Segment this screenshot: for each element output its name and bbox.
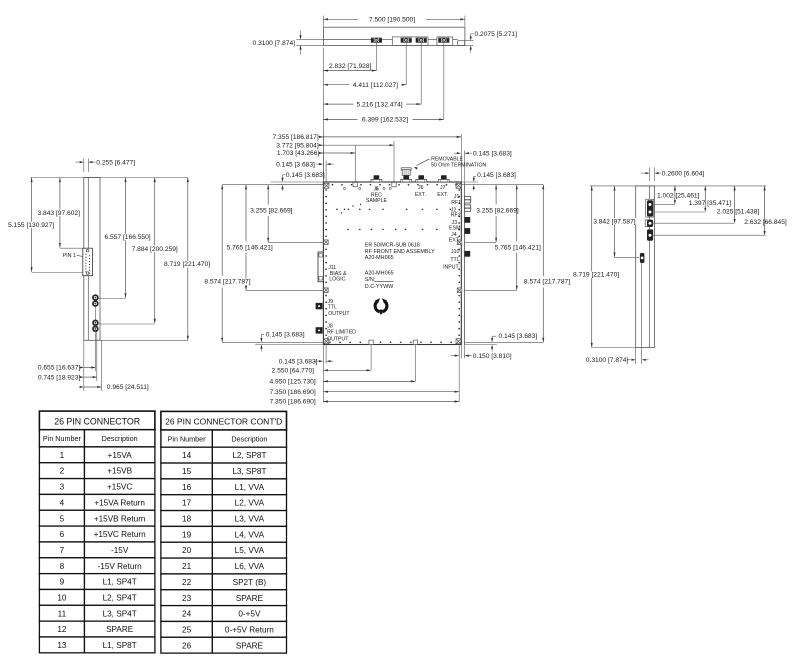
dimension 0.145 [3.683] top-left vertical: [271, 181, 324, 183]
table row pin 9: [39, 574, 154, 590]
svg-text:PIN 1: PIN 1: [63, 253, 76, 259]
extension lines below main box: [322, 345, 324, 403]
connector J9 side profile (left view): [93, 295, 98, 300]
svg-text:SP2T (B): SP2T (B): [233, 578, 267, 587]
svg-text:-15V: -15V: [111, 546, 129, 555]
svg-text:0.255 [6.477]: 0.255 [6.477]: [96, 159, 135, 166]
table 26 PIN CONNECTOR CONT'D header row: [161, 430, 287, 447]
inner hole row A: [336, 209, 338, 211]
svg-text:RF2: RF2: [451, 213, 461, 219]
left view bottom extension lines: [83, 340, 85, 391]
top side view plate line: [323, 38, 371, 40]
svg-text:7.500 [190.500]: 7.500 [190.500]: [369, 16, 415, 23]
svg-text:J10: J10: [451, 249, 459, 255]
svg-text:OUTPUT: OUTPUT: [328, 311, 350, 317]
svg-text:L1, SP4T: L1, SP4T: [103, 578, 137, 587]
dimension 0.145 [3.683] top-left: [319, 163, 324, 165]
dimension 6.557 [166.550]: [125, 178, 127, 298]
dimension 1.397 [35.471]: [704, 186, 706, 209]
dimension 1.703 [43.266]: [320, 152, 356, 154]
right view bottom extension line: [592, 347, 636, 349]
svg-text:2.632 [66.845]: 2.632 [66.845]: [744, 219, 787, 226]
table row pin 1: [39, 447, 154, 463]
edge screw right upper: [457, 240, 462, 245]
dimension 8.574 [217.787] left: [221, 185, 223, 276]
svg-text:3.255 [82.669]: 3.255 [82.669]: [250, 208, 293, 215]
svg-text:6: 6: [60, 530, 65, 539]
svg-text:24: 24: [182, 610, 192, 619]
connector J7 on top edge: [438, 179, 449, 182]
svg-text:14: 14: [182, 451, 192, 460]
svg-text:7: 7: [60, 546, 65, 555]
svg-text:15: 15: [182, 467, 192, 476]
svg-text:17: 17: [182, 499, 192, 508]
top edge square hole A: [353, 182, 357, 186]
left side view bottom extension line: [100, 339, 188, 341]
svg-text:5: 5: [60, 514, 65, 523]
svg-text:4: 4: [60, 498, 65, 507]
dimension 3.255 [82.669] left: [267, 185, 269, 205]
connector J10 on right edge: [465, 251, 471, 257]
dimension 0.2600 [6.604]: [649, 168, 651, 182]
corner screw top-right: [456, 183, 461, 188]
dimension 7.355 [186.817]: [320, 136, 462, 138]
svg-text:26: 26: [182, 641, 192, 650]
dimension 7.350 [186.690] first: [323, 391, 459, 393]
svg-text:EXT.: EXT.: [437, 192, 448, 198]
table row pin 4: [39, 494, 154, 510]
table 26 PIN CONNECTOR CONT'D column divider: [211, 430, 213, 653]
right side view lid face line: [649, 186, 651, 348]
dimension 2.025 [51.438]: [734, 186, 736, 221]
top side view outline: [323, 27, 465, 45]
dimension 0.2075 [5.271] right: [465, 40, 474, 42]
table row pin 5: [39, 510, 154, 526]
dimension 8.719 [221.470] left view: [187, 178, 189, 341]
svg-text:A20-MH065: A20-MH065: [365, 255, 394, 261]
svg-text:26 PIN CONNECTOR: 26 PIN CONNECTOR: [54, 416, 140, 426]
svg-text:+15VB Return: +15VB Return: [94, 514, 146, 523]
svg-text:3.772 [95.804]: 3.772 [95.804]: [276, 142, 319, 149]
dimension 5.216 [132.474]: [323, 103, 353, 105]
dimension 0.145 [3.683] top-right vertical: [461, 181, 478, 183]
connector J9 on left edge: [316, 303, 323, 309]
extension lines right of main box: [464, 241, 496, 243]
svg-text:TTL: TTL: [328, 305, 337, 311]
dimension 0.3100 [7.874] left: [296, 38, 323, 40]
svg-text:2: 2: [60, 467, 65, 476]
dimension 2.832 [71.928]: [323, 70, 376, 72]
svg-text:Description: Description: [231, 434, 267, 443]
svg-text:50 Ohm TERMINATION: 50 Ohm TERMINATION: [431, 163, 486, 169]
svg-text:-15V Return: -15V Return: [98, 562, 143, 571]
top side view right tab: [458, 41, 465, 46]
right side view top extension line: [590, 185, 767, 187]
left extension for top dims: [322, 48, 324, 182]
table row pin 2: [39, 463, 154, 479]
table row pin 6: [39, 526, 154, 542]
svg-text:1.703 [43.266]: 1.703 [43.266]: [277, 150, 320, 157]
bottom edge hole row: [329, 341, 331, 343]
svg-text:4.411 [112.027]: 4.411 [112.027]: [353, 82, 398, 89]
svg-text:Pin Number: Pin Number: [43, 434, 82, 443]
svg-text:21: 21: [182, 562, 192, 571]
connector J3 on right edge: [465, 217, 471, 223]
connector EXT side (right view): [647, 229, 653, 240]
table row pin 17: [161, 495, 287, 511]
svg-text:0-+5V Return: 0-+5V Return: [225, 625, 274, 634]
connector J4 on right edge: [465, 228, 471, 234]
left side view top extension line: [30, 177, 188, 179]
svg-text:S/N:: S/N:: [365, 277, 375, 283]
dimension 0.655 [16.637]: [84, 367, 96, 369]
svg-text:6.399 [162.532]: 6.399 [162.532]: [362, 117, 408, 124]
dimension 0.255 [6.477]: [83, 159, 85, 173]
svg-text:3.255 [82.669]: 3.255 [82.669]: [476, 208, 519, 215]
dimension 5.155 [130.927]: [31, 178, 33, 272]
svg-text:19: 19: [182, 530, 192, 539]
left edge hole column: [325, 189, 327, 191]
ESD logo: [375, 298, 388, 315]
extension lines above main box: [325, 161, 327, 182]
svg-text:7.355 [186.817]: 7.355 [186.817]: [273, 134, 319, 141]
svg-text:25: 25: [182, 625, 192, 634]
dimension 0.150 [3.810] bottom-right: [455, 355, 460, 357]
svg-text:L2, SP8T: L2, SP8T: [232, 451, 266, 460]
svg-text:SPARE: SPARE: [236, 641, 264, 650]
dimension 5.765 [146.421] right: [516, 185, 518, 242]
dimension 6.399 [162.532]: [323, 118, 357, 120]
connector TTL input side (right view): [640, 253, 645, 263]
table row pin 26: [161, 637, 287, 653]
connector J8 on left edge: [316, 327, 323, 333]
svg-text:L3, SP4T: L3, SP4T: [103, 609, 137, 618]
svg-text:0.2075 [5.271]: 0.2075 [5.271]: [475, 31, 518, 38]
svg-text:11: 11: [58, 609, 67, 618]
top edge hole row: [332, 184, 334, 186]
svg-text:LOGIC: LOGIC: [329, 276, 345, 282]
table row pin 8: [39, 558, 154, 574]
table row pin 25: [161, 621, 287, 637]
svg-text:0.145 [3.683]: 0.145 [3.683]: [279, 358, 318, 365]
svg-text:8: 8: [60, 562, 65, 571]
main assembly outline: [323, 182, 461, 345]
svg-text:9: 9: [60, 578, 65, 587]
svg-text:8.719 [221.470]: 8.719 [221.470]: [573, 272, 619, 279]
connector J8 side profile (left view): [93, 320, 98, 325]
connector ESM side (right view): [647, 220, 653, 227]
dimension 4.950 [125.730]: [323, 380, 415, 382]
edge screw right lower: [457, 288, 462, 293]
svg-text:D.C-YYWW: D.C-YYWW: [365, 284, 394, 290]
svg-text:INPUT: INPUT: [443, 264, 459, 270]
svg-text:L5, VVA: L5, VVA: [235, 546, 265, 555]
dimension 7.884 [200.259]: [154, 178, 156, 324]
svg-text:13: 13: [57, 641, 67, 650]
svg-text:4.950 [125.730]: 4.950 [125.730]: [270, 379, 316, 386]
svg-text:26 PIN CONNECTOR CONT'D: 26 PIN CONNECTOR CONT'D: [165, 417, 282, 427]
termination connector on top edge: [401, 179, 412, 182]
svg-text:L1, SP8T: L1, SP8T: [103, 641, 137, 650]
svg-text:7.350 [186.690]: 7.350 [186.690]: [270, 389, 316, 396]
svg-text:J7: J7: [440, 185, 446, 191]
dimension 7.500 [190.500]: [322, 16, 324, 27]
table row pin 10: [39, 589, 154, 605]
svg-text:8.574 [217.787]: 8.574 [217.787]: [204, 279, 250, 286]
svg-text:5.155 [130.927]: 5.155 [130.927]: [8, 222, 54, 229]
connector RF1-RF2 stack (right view): [647, 200, 653, 216]
svg-text:0.145 [3.683]: 0.145 [3.683]: [499, 333, 538, 340]
right edge hole column: [458, 189, 460, 191]
svg-text:+15VB: +15VB: [107, 467, 132, 476]
svg-text:OUTPUT: OUTPUT: [327, 336, 349, 342]
dimension 0.965 [24.511]: [84, 386, 102, 388]
svg-text:L3, SP8T: L3, SP8T: [232, 467, 266, 476]
svg-text:18: 18: [182, 515, 192, 524]
svg-text:1.397 [35.471]: 1.397 [35.471]: [689, 200, 732, 207]
connector PIN 1 26-pin d-sub side: [83, 248, 93, 276]
svg-text:0.145 [3.683]: 0.145 [3.683]: [477, 172, 516, 179]
svg-text:8.574 [217.787]: 8.574 [217.787]: [524, 279, 570, 286]
right view bottom extension lines: [635, 348, 637, 365]
bottom edge square hole B: [413, 340, 417, 344]
connector J6 side profile: [416, 38, 426, 42]
table row pin 11: [39, 605, 154, 621]
svg-text:23: 23: [182, 594, 192, 603]
svg-text:0.150 [3.810]: 0.150 [3.810]: [473, 353, 512, 360]
corner screw top-left: [324, 183, 329, 188]
dimension 0.3100 [7.874] right view: [632, 359, 636, 361]
svg-text:RF1: RF1: [451, 200, 461, 206]
svg-text:+15VC: +15VC: [107, 483, 132, 492]
connector J1 flange on right edge: [464, 197, 470, 200]
svg-text:8.719 [221.470]: 8.719 [221.470]: [164, 261, 210, 268]
svg-text:L2, SP4T: L2, SP4T: [103, 593, 137, 602]
svg-text:SAMPLE: SAMPLE: [366, 198, 388, 204]
top side view raised block A: [392, 37, 428, 46]
top edge square hole B: [392, 182, 396, 186]
svg-text:3.843 [97.602]: 3.843 [97.602]: [38, 210, 81, 217]
table row pin 23: [161, 590, 287, 606]
dimension 0.745 [18.923]: [84, 376, 97, 378]
svg-text:+15VC Return: +15VC Return: [94, 530, 147, 539]
dimension 2.632 [66.845]: [764, 186, 766, 233]
svg-text:Pin Number: Pin Number: [168, 434, 207, 443]
table row pin 7: [39, 542, 154, 558]
svg-text:0.655 [16.637]: 0.655 [16.637]: [38, 365, 81, 372]
inner hole row B: [347, 229, 349, 231]
dimension 4.411 [112.027]: [323, 84, 349, 86]
svg-text:+15VA: +15VA: [108, 451, 133, 460]
dimension 0.145 [3.683] top-right: [457, 152, 462, 154]
svg-text:5.216 [132.474]: 5.216 [132.474]: [357, 101, 403, 108]
left side view outline: [84, 178, 100, 341]
table row pin 19: [161, 526, 287, 542]
table row pin 16: [161, 479, 287, 495]
svg-text:3: 3: [60, 483, 65, 492]
svg-text:EXT.: EXT.: [449, 238, 460, 244]
dimension 8.574 [217.787] right: [542, 185, 544, 276]
svg-text:1.002 [25.461]: 1.002 [25.461]: [657, 192, 700, 199]
table row pin 24: [161, 606, 287, 622]
leader lines from side-view connectors: [375, 43, 377, 71]
svg-text:TTL: TTL: [450, 257, 459, 263]
dimension 0.145 [3.683] bottom: [319, 360, 324, 362]
svg-text:0.965 [24.511]: 0.965 [24.511]: [107, 384, 149, 391]
table row pin 18: [161, 511, 287, 527]
svg-text:EXT.: EXT.: [415, 192, 426, 198]
svg-text:0.3100 [7.874]: 0.3100 [7.874]: [253, 40, 296, 47]
svg-text:L2, VVA: L2, VVA: [235, 499, 265, 508]
svg-text:10: 10: [57, 593, 67, 602]
connector J5 on top edge: [371, 179, 382, 182]
svg-text:0.145 [3.683]: 0.145 [3.683]: [473, 150, 512, 157]
table row pin 12: [39, 621, 154, 637]
svg-text:7.884 [200.259]: 7.884 [200.259]: [132, 246, 178, 253]
svg-text:RF LIMITED: RF LIMITED: [327, 329, 356, 335]
dimension 3.843 [97.602]: [59, 178, 61, 248]
svg-text:22: 22: [182, 578, 192, 587]
table 26 PIN CONNECTOR column divider: [83, 430, 85, 653]
svg-text:12: 12: [57, 625, 67, 634]
svg-text:2.832 [71.928]: 2.832 [71.928]: [329, 63, 372, 70]
svg-text:16: 16: [182, 483, 192, 492]
svg-text:0.2600 [6.604]: 0.2600 [6.604]: [662, 170, 705, 177]
connector J11 26-pin on left edge: [318, 252, 323, 282]
dimension 7.350 [186.690] second: [323, 401, 459, 403]
right view connector group box upper: [646, 199, 654, 217]
sparse circles under top edge: [344, 187, 346, 189]
table row pin 21: [161, 558, 287, 574]
table row pin 13: [39, 637, 154, 653]
table row pin 14: [161, 447, 287, 463]
right view connector group box lower: [645, 220, 651, 227]
svg-text:2.025 [51.438]: 2.025 [51.438]: [717, 209, 760, 216]
svg-text:A20-MH065: A20-MH065: [365, 270, 394, 276]
svg-text:6.557 [166.550]: 6.557 [166.550]: [105, 234, 151, 241]
dimension 5.765 [146.421] left: [245, 185, 247, 242]
main assembly outer right line: [463, 182, 465, 345]
dimension 3.255 [82.669] right: [495, 185, 497, 205]
svg-text:L6, VVA: L6, VVA: [235, 562, 265, 571]
edge screw left lower: [324, 288, 329, 293]
svg-text:J6: J6: [418, 185, 424, 191]
connector J5 side profile: [371, 38, 381, 42]
table row pin 20: [161, 542, 287, 558]
dimension 2.550 [64.770]: [323, 369, 371, 371]
connector J6 on top edge: [416, 179, 427, 182]
table 26 PIN CONNECTOR title: [39, 411, 154, 430]
svg-text:L3, VVA: L3, VVA: [235, 515, 265, 524]
table 26 PIN CONNECTOR header row: [39, 430, 154, 447]
svg-text:ESM: ESM: [449, 226, 460, 232]
table row pin 3: [39, 479, 154, 495]
svg-text:L1, VVA: L1, VVA: [235, 483, 265, 492]
svg-text:7.350 [186.690]: 7.350 [186.690]: [270, 399, 316, 406]
svg-text:SPARE: SPARE: [106, 625, 134, 634]
svg-text:2.550 [64.770]: 2.550 [64.770]: [272, 368, 315, 375]
extension lines left of main box: [222, 184, 323, 186]
svg-text:Description: Description: [102, 434, 138, 443]
corner screw bottom-left: [324, 339, 329, 344]
svg-text:5.765 [146.421]: 5.765 [146.421]: [227, 244, 273, 251]
dimension 3.772 [95.804]: [319, 144, 394, 146]
svg-text:0-+5V: 0-+5V: [238, 610, 261, 619]
svg-text:5.765 [146.421]: 5.765 [146.421]: [495, 244, 541, 251]
svg-text:0.145 [3.683]: 0.145 [3.683]: [266, 332, 305, 339]
svg-text:0.145 [3.683]: 0.145 [3.683]: [286, 172, 325, 179]
svg-text:20: 20: [182, 546, 192, 555]
table 26 PIN CONNECTOR CONT'D title: [161, 411, 287, 430]
svg-text:1: 1: [60, 451, 65, 460]
svg-text:3.842 [97.587]: 3.842 [97.587]: [593, 218, 636, 225]
connector J2 flange on right edge: [464, 205, 470, 208]
top side view raised block B: [437, 37, 453, 46]
svg-text:SPARE: SPARE: [236, 594, 264, 603]
table row pin 22: [161, 574, 287, 590]
dimension 1.002 [25.461]: [674, 186, 676, 202]
left side view lid face line: [87, 178, 89, 341]
corner screw bottom-right: [456, 339, 461, 344]
dimension 3.842 [97.587]: [614, 186, 616, 257]
svg-text:0.3100 [7.874]: 0.3100 [7.874]: [586, 357, 629, 364]
svg-text:0.745 [18.923]: 0.745 [18.923]: [38, 374, 81, 381]
removable 50 ohm termination cap: [401, 168, 411, 170]
edge screw left upper: [324, 240, 329, 245]
removable termination side profile: [401, 38, 411, 42]
svg-text:0.145 [3.683]: 0.145 [3.683]: [276, 161, 315, 168]
svg-text:L4, VVA: L4, VVA: [235, 530, 265, 539]
connector J7 side profile: [439, 38, 449, 42]
bottom edge square hole A: [369, 340, 373, 344]
right side view outline: [636, 186, 655, 348]
dimension 8.719 [221.470] right view: [591, 186, 593, 348]
svg-text:+15VA Return: +15VA Return: [94, 498, 145, 507]
svg-text:ER 50/MCR-SUB 0618: ER 50/MCR-SUB 0618: [365, 242, 420, 248]
table row pin 15: [161, 463, 287, 479]
